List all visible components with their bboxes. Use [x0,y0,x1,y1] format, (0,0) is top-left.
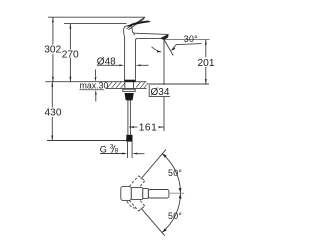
supply hose upper [127,100,129,135]
top view lever shaft [148,190,169,199]
hose connector nut [126,135,132,142]
deck bottom line [106,87,147,89]
svg-text:161: 161 [139,122,158,133]
text 430 [45,108,62,117]
svg-text:30°: 30° [184,34,198,44]
dimension line 430 [51,82,53,141]
body base dark band [124,80,136,82]
text 201 [198,57,214,67]
svg-text:max.30: max.30 [80,81,109,91]
extension line handle top (270 level) [64,23,127,25]
handle base cap [124,26,135,36]
extension line hose end [47,140,128,142]
O48 label tail left [97,64,119,66]
text 302 [45,45,62,54]
G3/8 dimension tail left [100,153,123,155]
swing arc upper [162,154,180,193]
svg-text:Ø34: Ø34 [151,87,170,98]
dimension line 201 [205,40,207,84]
top view arrowheads [162,154,181,233]
faucet body right edge [135,39,137,80]
arrow O48 right [119,64,124,66]
swing ray lower [141,208,165,236]
arc arrow upper ray [162,154,167,158]
arrow 302 up [52,17,54,22]
G3/8 dimension tail right [137,153,144,155]
deck hatching left [107,82,146,88]
top view lever tip block [121,186,131,200]
arrow 201 down [205,79,207,84]
deck top line with left extension [46,81,147,83]
dimension line 302 [52,17,54,82]
center line top view [169,192,184,194]
dimension line 270 [69,24,71,82]
text 161 [138,123,159,132]
arrow 201 up [205,40,207,45]
text max30 [79,83,105,90]
arrow G38 left [122,153,127,155]
top view lever block2 [131,188,143,200]
text O34 [150,86,170,96]
arrow 161 left [129,126,134,128]
30 degree leader line [172,44,202,50]
phantom lever upper dashed [129,176,145,187]
washer under deck [123,89,135,91]
handle raised blade line [127,17,146,29]
arrow 30deg arc [157,50,162,52]
extension line top (302 level) [48,16,145,18]
arrow O48 left [136,64,141,66]
O48 label tail right [141,64,149,66]
svg-text:G: G [100,144,107,154]
arrow 30deg leader [171,47,175,51]
svg-text:302: 302 [44,44,61,55]
max30 arrow tails [95,70,97,102]
arrow max30 down [95,77,97,82]
deck extension line to 201 [147,83,210,85]
spout beak dark [161,34,169,39]
svg-text:201: 201 [198,58,215,69]
arrow 270 down [69,77,71,82]
arrow 302 down [52,77,54,82]
mounting nut dark [125,93,134,100]
201 extension line from outlet [164,39,210,41]
arrow 270 up [69,24,71,29]
faucet body left edge [124,35,126,81]
swing arc lower [162,193,180,232]
arrow 430 up [51,82,53,87]
arrow 430 down [51,136,53,141]
deck hatching right [136,82,146,88]
arrow 161 right [159,126,164,128]
spout underside [137,38,163,40]
swing ray upper [141,149,166,179]
outlet vertical extension line [163,40,165,132]
shank left edge through deck [124,82,126,88]
shank right edge through deck [133,82,135,88]
svg-text:Ø48: Ø48 [97,57,116,68]
hose thread [127,142,129,158]
outlet 30 degree axis line [164,40,173,56]
top view lever block3 [143,188,149,198]
max30 label underline [80,89,105,91]
arc arrow lower center [179,194,182,199]
hose top stub [128,99,131,101]
text 270 [62,50,79,58]
O34 label leader [149,85,170,96]
arc arrow lower ray [162,228,167,232]
svg-text:50°: 50° [168,211,182,221]
phantom lever lower dashed [127,200,145,211]
svg-text:270: 270 [62,49,79,60]
spout outlet face [161,34,169,38]
arc arrow upper center [179,188,182,193]
svg-text:430: 430 [45,108,62,119]
dimension line 161 [129,126,164,128]
30 degree arc [152,47,162,52]
arrow max30 up [95,90,97,95]
arrow G38 right [132,153,137,155]
spout top line [134,33,169,34]
svg-text:8: 8 [115,148,119,155]
svg-text:50°: 50° [168,168,182,178]
arrowheads group [51,17,206,154]
handle lever dark blade [127,21,151,27]
